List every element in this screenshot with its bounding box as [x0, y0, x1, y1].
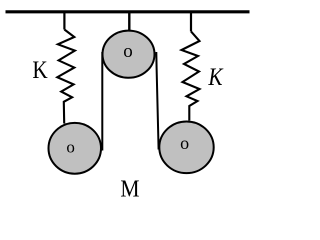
svg-text:K: K: [207, 63, 223, 91]
svg-text:M: M: [120, 174, 139, 199]
svg-text:o: o: [180, 133, 189, 153]
svg-text:o: o: [66, 138, 75, 157]
svg-text:o: o: [123, 41, 133, 62]
svg-text:K: K: [32, 57, 48, 85]
